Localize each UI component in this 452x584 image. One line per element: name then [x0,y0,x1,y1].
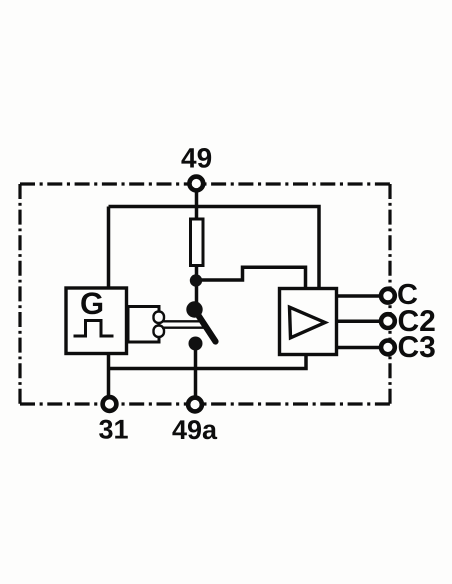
svg-text:31: 31 [99,415,129,445]
svg-text:G: G [80,286,104,321]
svg-text:49: 49 [181,143,212,174]
svg-text:C3: C3 [398,331,436,364]
svg-text:49a: 49a [172,415,218,445]
